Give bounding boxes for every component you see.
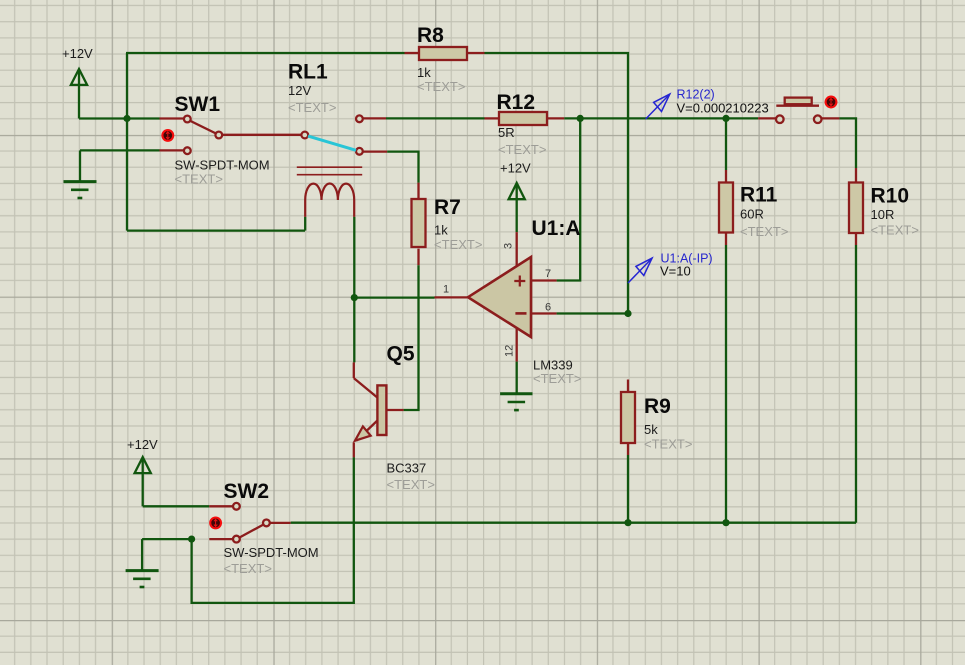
wire top rail to R8 xyxy=(126,52,405,54)
wire coil left leg xyxy=(304,217,306,231)
wire node down to Q5 collector xyxy=(353,298,355,363)
op-amp pin stubs xyxy=(435,281,557,362)
svg-text:12V: 12V xyxy=(288,83,311,98)
svg-text:<TEXT>: <TEXT> xyxy=(387,477,435,492)
wire coil right leg down to output node xyxy=(353,217,355,298)
ground GND2 op-amp xyxy=(500,394,532,410)
probe R12(2) xyxy=(646,94,670,119)
node junction at 628,313.5 xyxy=(624,310,631,317)
wire SW2 common rail to right xyxy=(291,522,856,524)
svg-text:U1:A: U1:A xyxy=(532,217,581,240)
svg-text:1: 1 xyxy=(443,284,449,296)
push-button xyxy=(758,98,839,123)
ground GND3 xyxy=(126,539,159,587)
resistor R7 xyxy=(412,183,426,266)
wire relay coil return xyxy=(127,229,305,231)
wire R9 bottom to rail xyxy=(627,455,629,523)
wire R12 to node xyxy=(564,117,580,119)
power +12V op-amp xyxy=(509,183,525,232)
wire op-amp output to node xyxy=(354,296,434,298)
svg-text:SW2: SW2 xyxy=(224,480,270,503)
svg-text:<TEXT>: <TEXT> xyxy=(175,172,223,187)
svg-text:5R: 5R xyxy=(498,125,515,140)
svg-text:R9: R9 xyxy=(644,395,671,418)
svg-text:R10: R10 xyxy=(871,185,910,208)
transistor Q5 BC337 xyxy=(354,362,404,457)
switch SW1 SPDT-MOM xyxy=(160,116,302,155)
svg-text:+12V: +12V xyxy=(500,161,531,176)
wire rail y=118.4 to push-button xyxy=(580,117,758,119)
wire R8 to right rail x=628 xyxy=(485,53,629,314)
svg-text:Q5: Q5 xyxy=(387,343,415,366)
ground GND1 xyxy=(64,150,97,198)
resistor R11 xyxy=(719,118,733,245)
svg-text:<TEXT>: <TEXT> xyxy=(740,224,788,239)
svg-text:V=0.000210223: V=0.000210223 xyxy=(677,101,769,116)
svg-text:<TEXT>: <TEXT> xyxy=(224,561,272,576)
svg-text:SW1: SW1 xyxy=(175,93,221,116)
svg-text:1k: 1k xyxy=(417,65,431,80)
op-amp plus sign xyxy=(514,276,525,287)
svg-text:R11: R11 xyxy=(740,184,778,207)
node junction at 354,297.6 xyxy=(351,294,358,301)
wire push-button to R10 xyxy=(839,118,856,168)
svg-text:<TEXT>: <TEXT> xyxy=(871,223,919,238)
svg-text:+12V: +12V xyxy=(127,437,158,452)
relay RL1 lower contact xyxy=(356,148,387,155)
wire ground to SW1 lower throw xyxy=(80,149,160,151)
svg-text:V=10: V=10 xyxy=(660,264,691,279)
svg-text:6: 6 xyxy=(545,302,551,314)
svg-text:<TEXT>: <TEXT> xyxy=(417,79,465,94)
node junction at 191.6,539.1 xyxy=(188,536,195,543)
relay RL1 upper contact xyxy=(356,115,386,122)
svg-text:R8: R8 xyxy=(417,24,444,47)
svg-text:SW-SPDT-MOM: SW-SPDT-MOM xyxy=(224,545,319,560)
svg-text:7: 7 xyxy=(545,268,551,280)
push-button actuator red dot xyxy=(826,97,837,108)
wire relay NC to R7 xyxy=(387,152,418,183)
svg-text:<TEXT>: <TEXT> xyxy=(644,437,692,452)
svg-text:<TEXT>: <TEXT> xyxy=(434,237,482,252)
node junction at 580,118.4 xyxy=(577,115,584,122)
relay RL1 contact pole xyxy=(301,132,308,139)
wire vertical rail x=127 xyxy=(126,53,128,231)
relay RL1 core lines xyxy=(297,167,362,175)
power +12V SW2 xyxy=(135,457,151,506)
svg-text:60R: 60R xyxy=(740,207,764,222)
node junction at 127,118.5 xyxy=(123,115,130,122)
wire R10 bottom to rail xyxy=(855,245,857,523)
svg-text:RL1: RL1 xyxy=(288,61,328,84)
wire relay NO to R12 xyxy=(386,117,485,119)
svg-text:5k: 5k xyxy=(644,422,658,437)
svg-text:<TEXT>: <TEXT> xyxy=(288,100,336,115)
wire R7 bottom to Q5 base xyxy=(404,265,419,410)
svg-text:10R: 10R xyxy=(871,207,895,222)
wire Q5 emitter down and along bottom to SW2 node xyxy=(192,457,354,603)
Q5 base bar xyxy=(377,385,386,435)
relay RL1 coil xyxy=(305,183,354,216)
node junction at 726,522.7 xyxy=(722,519,729,526)
relay RL1 moving arm (cyan) xyxy=(308,136,356,150)
svg-text:<TEXT>: <TEXT> xyxy=(498,142,546,157)
resistor R8 xyxy=(405,47,485,60)
svg-text:R7: R7 xyxy=(434,196,461,219)
svg-text:1k: 1k xyxy=(434,223,448,238)
wire node down to pin7 xyxy=(557,118,581,280)
wire pin6 to rail xyxy=(557,312,628,314)
svg-text:+12V: +12V xyxy=(62,46,93,61)
resistor R10 xyxy=(849,168,863,245)
wire pin12 to ground xyxy=(516,362,518,394)
wire ground to SW2 node xyxy=(142,538,192,540)
svg-text:SW-SPDT-MOM: SW-SPDT-MOM xyxy=(175,158,270,173)
node junction at 628,522.7 xyxy=(624,519,631,526)
op-amp U1:A pin 3 stub xyxy=(516,232,518,266)
svg-text:<TEXT>: <TEXT> xyxy=(533,371,581,386)
node junction at 726,118.4 xyxy=(722,115,729,122)
resistor R9 xyxy=(621,380,635,456)
svg-text:12: 12 xyxy=(504,345,516,357)
wire R11 bottom to rail xyxy=(725,245,727,523)
op-amp U1:A body xyxy=(468,257,531,337)
op-amp minus sign xyxy=(515,312,526,315)
wire +12V to SW2 top throw xyxy=(143,505,210,507)
svg-text:BC337: BC337 xyxy=(387,461,427,476)
probe U1:A(-IP) xyxy=(628,258,652,283)
switch SW2 SPDT-MOM xyxy=(209,503,290,543)
svg-text:R12: R12 xyxy=(497,91,536,114)
SW2 actuator red dot xyxy=(210,518,221,529)
svg-text:3: 3 xyxy=(503,243,515,249)
SW1 actuator red dot xyxy=(162,130,173,141)
Q5 emitter arrow xyxy=(355,426,371,440)
power +12V top-left xyxy=(71,69,87,119)
wire +12V to SW1 node xyxy=(79,117,160,119)
resistor R12 xyxy=(485,112,565,125)
svg-text:R12(2): R12(2) xyxy=(677,88,715,102)
